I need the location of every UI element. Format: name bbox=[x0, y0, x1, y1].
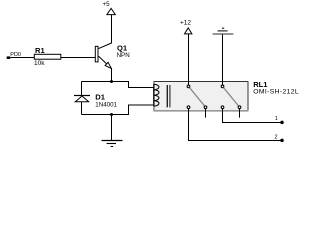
svg-text:1: 1 bbox=[275, 116, 278, 122]
svg-text:D1: D1 bbox=[95, 92, 105, 101]
svg-text:OMI-SH-212L: OMI-SH-212L bbox=[253, 88, 299, 95]
svg-text:R1: R1 bbox=[35, 46, 45, 55]
svg-text:2: 2 bbox=[275, 135, 278, 141]
svg-text:+5: +5 bbox=[103, 1, 111, 8]
svg-text:1N4001: 1N4001 bbox=[95, 101, 117, 108]
svg-text:10k: 10k bbox=[34, 60, 45, 67]
svg-text:+12: +12 bbox=[180, 20, 191, 27]
svg-text:NPN: NPN bbox=[117, 52, 130, 59]
